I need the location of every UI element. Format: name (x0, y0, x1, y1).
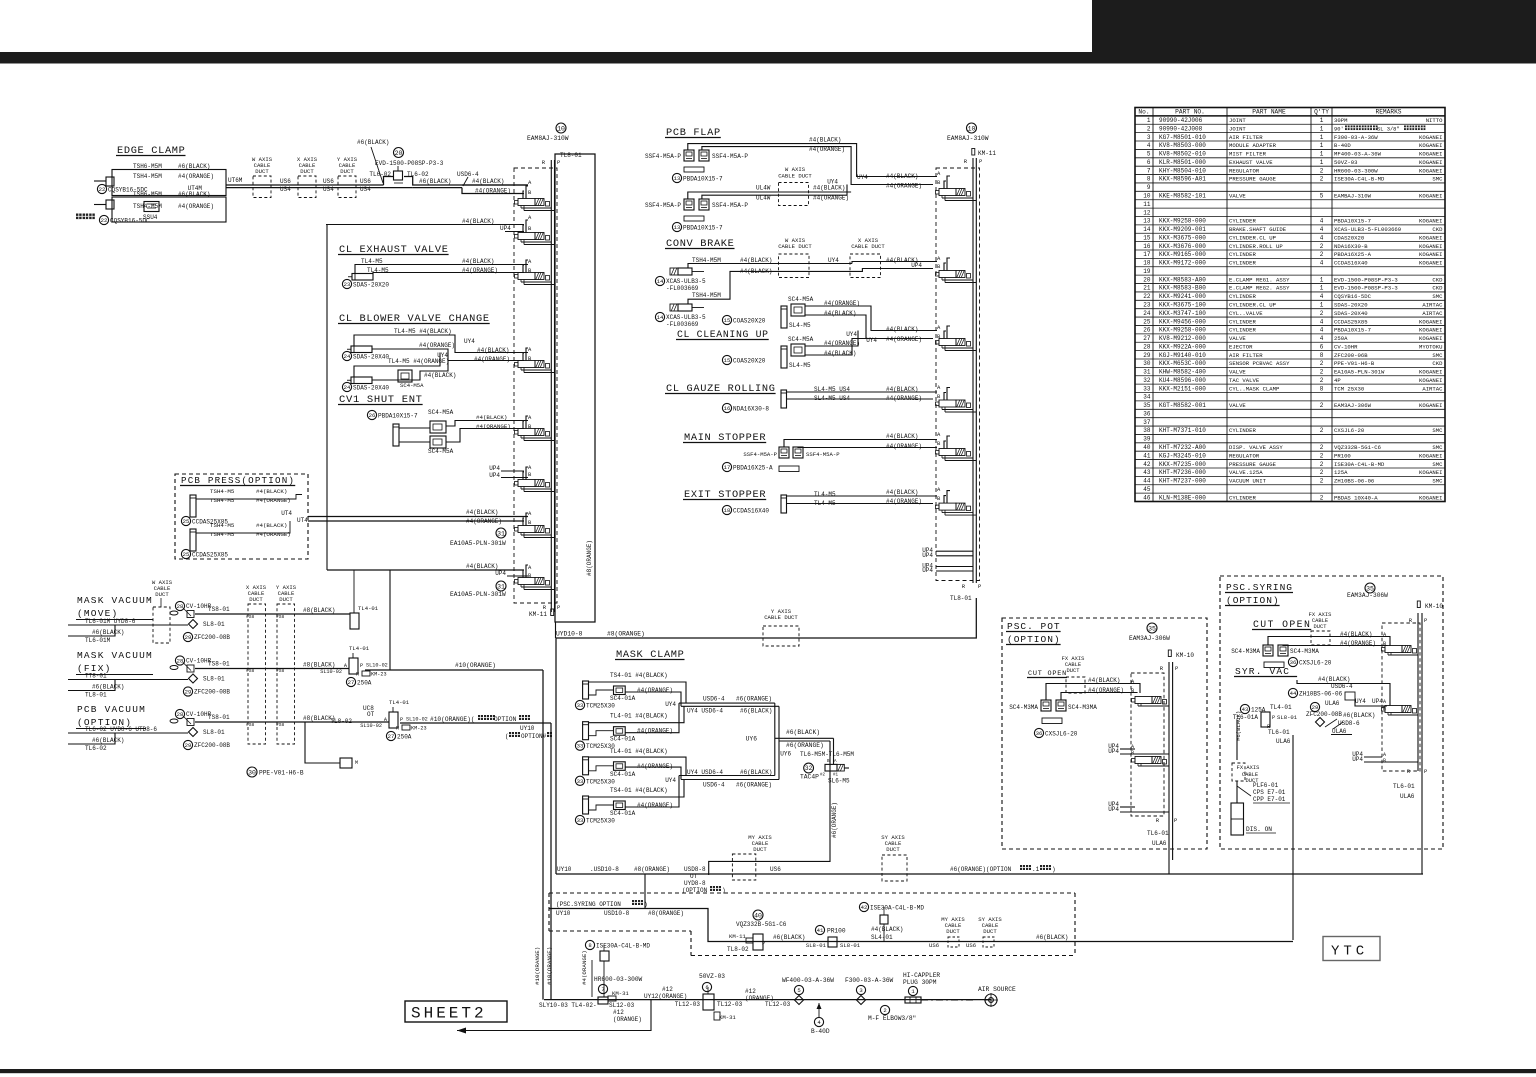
svg-text:UYD8-8: UYD8-8 (684, 880, 706, 887)
svg-text:#6(BLACK): #6(BLACK) (92, 684, 124, 691)
svg-text:SL10-02: SL10-02 (320, 669, 342, 675)
svg-text:ULA6: ULA6 (1400, 793, 1415, 800)
svg-text:TCM25X30: TCM25X30 (586, 818, 615, 825)
svg-text:UY10: UY10 (557, 866, 572, 873)
svg-text:EAM8AJ-310W: EAM8AJ-310W (947, 135, 989, 142)
svg-text:CYLINDER.ROLL UP: CYLINDER.ROLL UP (1229, 243, 1283, 250)
svg-text:SL4-01: SL4-01 (871, 934, 893, 941)
svg-text:SL10-02: SL10-02 (406, 717, 428, 723)
svg-text:ISE30A-C4L-B-MD: ISE30A-C4L-B-MD (870, 905, 924, 912)
svg-text:TL6-01M: TL6-01M (85, 637, 111, 644)
svg-text:TL4-01: TL4-01 (1270, 704, 1292, 711)
svg-text:UY4: UY4 (665, 701, 676, 708)
svg-text:28: 28 (177, 658, 184, 665)
svg-text:ULA6: ULA6 (1152, 840, 1167, 847)
svg-text:SC4-01A: SC4-01A (610, 736, 636, 743)
svg-text:#4(ORANGE): #4(ORANGE) (637, 763, 673, 770)
svg-text:2: 2 (1320, 469, 1324, 476)
svg-text:DUCT: DUCT (946, 928, 960, 935)
svg-text:P: P (360, 663, 363, 669)
svg-text:CABLE DUCT: CABLE DUCT (778, 173, 812, 180)
svg-text:CCDAS25X85: CCDAS25X85 (192, 552, 228, 559)
svg-text:SDAS-20X40: SDAS-20X40 (353, 385, 389, 392)
svg-text:1: 1 (1320, 151, 1324, 158)
svg-text:38: 38 (1143, 427, 1151, 434)
svg-text:TSH4-M5M: TSH4-M5M (133, 173, 162, 180)
svg-text:8: 8 (1320, 352, 1324, 359)
svg-text:KOGANEI: KOGANEI (1419, 234, 1443, 241)
svg-text:1: 1 (1320, 276, 1324, 283)
svg-text:41: 41 (1143, 452, 1151, 459)
svg-text:KKX-M9258-000: KKX-M9258-000 (1159, 327, 1206, 334)
svg-text:CABLE DUCT: CABLE DUCT (764, 614, 798, 621)
svg-text:SMC: SMC (1432, 293, 1443, 300)
svg-text:KM-11: KM-11 (529, 611, 547, 618)
svg-text:SMC: SMC (1432, 461, 1443, 468)
svg-text:DUCT: DUCT (155, 591, 169, 598)
svg-text:PCB VACUUM: PCB VACUUM (77, 704, 146, 715)
svg-text:50VZ-03: 50VZ-03 (1334, 159, 1358, 166)
svg-text:UL4W: UL4W (756, 185, 771, 192)
svg-text:SL4-M5: SL4-M5 (789, 322, 811, 329)
svg-text:HR600-03-300W: HR600-03-300W (594, 976, 643, 983)
svg-text:2: 2 (1320, 176, 1324, 183)
svg-text:#10(ORANGE): #10(ORANGE) (534, 947, 541, 985)
svg-text:5: 5 (797, 987, 800, 994)
svg-text:SL8-01: SL8-01 (806, 942, 827, 949)
svg-text:33: 33 (577, 778, 584, 785)
svg-text:KKX-M922A-000: KKX-M922A-000 (1159, 343, 1206, 350)
svg-text:#4(BLACK): #4(BLACK) (462, 218, 494, 225)
svg-text:21: 21 (1143, 285, 1151, 292)
svg-text:EAM3AJ-306W: EAM3AJ-306W (1334, 402, 1372, 409)
svg-text:4: 4 (1320, 260, 1324, 267)
svg-text:KOGANEI: KOGANEI (1419, 134, 1443, 141)
svg-text:KKX-M2151-000: KKX-M2151-000 (1159, 385, 1206, 392)
svg-text:P: P (979, 158, 982, 165)
svg-text:SSF4-M5A-P: SSF4-M5A-P (712, 153, 748, 160)
svg-text:#4(ORANGE): #4(ORANGE) (178, 173, 214, 180)
svg-text:UP4: UP4 (489, 472, 500, 479)
svg-text:45: 45 (1143, 486, 1151, 493)
svg-text:22: 22 (99, 186, 106, 193)
svg-text:#8(ORANGE): #8(ORANGE) (586, 540, 593, 576)
svg-text:KM-10: KM-10 (1176, 652, 1194, 659)
svg-text:USD6-4: USD6-4 (457, 171, 479, 178)
svg-text:E.CLAMP REG2. ASSY: E.CLAMP REG2. ASSY (1229, 285, 1290, 292)
svg-text:#6(ORANGE): #6(ORANGE) (786, 742, 824, 749)
svg-text:AIR SOURCE: AIR SOURCE (978, 986, 1016, 993)
svg-text:KOGANEI: KOGANEI (1419, 167, 1443, 174)
svg-text:#S8: #S8 (276, 668, 285, 674)
svg-text:EXHAUST VALVE: EXHAUST VALVE (1229, 159, 1273, 166)
svg-text:SL8-01: SL8-01 (203, 729, 225, 736)
svg-text:SL8-01: SL8-01 (203, 676, 225, 683)
svg-text:#4(ORANGE): #4(ORANGE) (809, 146, 845, 153)
svg-text:KOGANEI: KOGANEI (1419, 318, 1443, 325)
svg-text:TL4-01 #4(BLACK): TL4-01 #4(BLACK) (610, 748, 668, 755)
svg-text:DUCT: DUCT (300, 168, 314, 175)
svg-text:CKD: CKD (1432, 276, 1443, 283)
svg-text:F300-03-A-36W: F300-03-A-36W (1334, 134, 1378, 141)
svg-text:REGULATOR: REGULATOR (1229, 167, 1260, 174)
svg-text:33: 33 (577, 817, 584, 824)
svg-text:UY4 USD6-4: UY4 USD6-4 (687, 769, 723, 776)
svg-text:.1: .1 (1032, 866, 1040, 873)
svg-text:VALVE: VALVE (1229, 402, 1246, 409)
svg-text:PR100: PR100 (1334, 452, 1351, 459)
svg-text:TL12-03: TL12-03 (765, 1001, 791, 1008)
svg-text:TCM25X30: TCM25X30 (586, 703, 615, 710)
svg-text:22: 22 (101, 217, 108, 224)
svg-text:KKX-M9241-000: KKX-M9241-000 (1159, 293, 1206, 300)
svg-text:#10(ORANGE): #10(ORANGE) (546, 947, 553, 985)
svg-text:#6(BLACK): #6(BLACK) (1235, 711, 1242, 741)
svg-text:1: 1 (1320, 301, 1324, 308)
svg-text:#S8: #S8 (246, 668, 255, 674)
svg-text:TSH4-M5: TSH4-M5 (210, 522, 235, 529)
svg-text:UY6: UY6 (780, 751, 791, 758)
svg-text:SLY10-03 TL4-02-: SLY10-03 TL4-02- (539, 1002, 597, 1009)
svg-text:#4(ORANGE): #4(ORANGE) (886, 336, 922, 343)
svg-text:MIST FILTER: MIST FILTER (1229, 151, 1267, 158)
svg-text:DUCT: DUCT (249, 596, 263, 603)
svg-text:KKX-M9456-000: KKX-M9456-000 (1159, 318, 1206, 325)
svg-text:#12: #12 (662, 986, 673, 993)
svg-text:E.CLAMP REG1. ASSY: E.CLAMP REG1. ASSY (1229, 276, 1290, 283)
svg-text:42: 42 (861, 904, 868, 911)
svg-text:TS4-01 #4(BLACK): TS4-01 #4(BLACK) (610, 787, 668, 794)
svg-text:1: 1 (1147, 117, 1151, 124)
svg-text:UY6: UY6 (746, 736, 758, 743)
svg-text:13: 13 (674, 175, 681, 182)
svg-text:250A: 250A (1334, 335, 1348, 342)
svg-text:28: 28 (177, 603, 184, 610)
svg-text:35: 35 (1148, 625, 1156, 632)
svg-text:11: 11 (1143, 201, 1151, 208)
svg-text:SENSOR PCBVAC ASSY: SENSOR PCBVAC ASSY (1229, 360, 1290, 367)
svg-text:15: 15 (1143, 234, 1151, 241)
svg-text:1: 1 (1320, 134, 1324, 141)
svg-text:#4(ORANGE): #4(ORANGE) (637, 687, 673, 694)
svg-text:KKX-M3675-100: KKX-M3675-100 (1159, 301, 1206, 308)
svg-text:SC4-01A: SC4-01A (610, 771, 636, 778)
svg-text:US6: US6 (770, 866, 781, 873)
svg-text:KKX-M8583-B00: KKX-M8583-B00 (1159, 285, 1206, 292)
svg-text:UP4: UP4 (495, 570, 506, 577)
svg-text:UY10: UY10 (556, 910, 571, 917)
svg-text:#6(BLACK): #6(BLACK) (357, 139, 389, 146)
svg-text:4: 4 (1320, 327, 1324, 334)
svg-text:B-40D: B-40D (811, 1028, 830, 1035)
svg-text:P: P (1424, 768, 1427, 775)
svg-text:PRESSURE GAUGE: PRESSURE GAUGE (1229, 461, 1277, 468)
svg-text:UT4M: UT4M (188, 185, 203, 192)
svg-text:4: 4 (1320, 293, 1324, 300)
svg-text:UP4: UP4 (1108, 806, 1119, 813)
svg-text:6: 6 (1147, 159, 1151, 166)
svg-text:7: 7 (1147, 167, 1151, 174)
svg-text:SL4-M5: SL4-M5 (789, 362, 811, 369)
svg-text:44: 44 (1143, 478, 1151, 485)
svg-text:B-40D: B-40D (1334, 142, 1351, 149)
svg-text:CABLE DUCT: CABLE DUCT (851, 243, 885, 250)
svg-text:#4(ORANGE): #4(ORANGE) (178, 203, 214, 210)
svg-text:PBDAS 10X40-A: PBDAS 10X40-A (1334, 494, 1378, 501)
svg-text:KHT-M7237-000: KHT-M7237-000 (1159, 478, 1206, 485)
svg-text:CYL..VALVE: CYL..VALVE (1229, 310, 1263, 317)
svg-text:PART NO.: PART NO. (1175, 109, 1205, 116)
svg-text:TL8-01: TL8-01 (950, 595, 972, 602)
svg-text:125A: 125A (1334, 469, 1348, 476)
svg-text:AIR FILTER: AIR FILTER (1229, 134, 1263, 141)
svg-text:CXSJL6-20: CXSJL6-20 (1045, 731, 1078, 738)
svg-text:TL6-01M UYD8-6: TL6-01M UYD8-6 (85, 618, 136, 625)
svg-text:TSH4-M5: TSH4-M5 (210, 531, 235, 538)
svg-text:KV8-M8502-010: KV8-M8502-010 (1159, 151, 1206, 158)
svg-text:#2: #2 (820, 774, 826, 778)
svg-text:SC4-M5A: SC4-M5A (428, 448, 454, 455)
svg-text:#4(ORANGE): #4(ORANGE) (581, 950, 588, 985)
svg-text:#12: #12 (745, 988, 756, 995)
svg-text:F300-03-A-36W: F300-03-A-36W (845, 977, 894, 984)
svg-text:TL4-01: TL4-01 (349, 645, 370, 652)
svg-text:TAC VALVE: TAC VALVE (1229, 377, 1260, 384)
svg-text:CUT OPEN: CUT OPEN (1253, 619, 1311, 630)
svg-text:23: 23 (344, 281, 351, 288)
svg-text:13: 13 (1143, 218, 1151, 225)
svg-text:KOGANEI: KOGANEI (1419, 243, 1443, 250)
svg-text:VALVE: VALVE (1229, 193, 1246, 200)
svg-text:A: A (1383, 699, 1386, 705)
svg-text:UY4: UY4 (464, 338, 475, 345)
svg-text:CYLINDER: CYLINDER (1229, 318, 1256, 325)
svg-text:USD8-8: USD8-8 (684, 866, 706, 873)
svg-text:US6: US6 (966, 942, 976, 949)
svg-text:KOGANEI: KOGANEI (1419, 251, 1443, 258)
svg-text:SC4-01A: SC4-01A (610, 695, 636, 702)
svg-text:1: 1 (1320, 117, 1324, 124)
svg-text:SL12-03: SL12-03 (609, 1002, 635, 1009)
svg-text:SDAS-20X40: SDAS-20X40 (1334, 310, 1368, 317)
svg-text:19: 19 (1143, 268, 1151, 275)
svg-text:2: 2 (1320, 369, 1324, 376)
svg-text:#6(BLACK): #6(BLACK) (773, 934, 805, 941)
svg-text:UYD10-8: UYD10-8 (556, 631, 583, 638)
svg-text:XCAS-ULB3-5: XCAS-ULB3-5 (666, 314, 706, 321)
svg-text:AIRTAC: AIRTAC (1422, 385, 1443, 392)
svg-text:#4(BLACK): #4(BLACK) (1318, 676, 1350, 683)
svg-text:UP4: UP4 (922, 552, 933, 559)
svg-text:SDAS-20X20: SDAS-20X20 (1334, 301, 1368, 308)
svg-text:KKX-M7235-000: KKX-M7235-000 (1159, 461, 1206, 468)
svg-text:10: 10 (968, 125, 976, 132)
svg-text:TSH4-M5: TSH4-M5 (210, 497, 235, 504)
svg-text:2: 2 (1320, 360, 1324, 367)
svg-text:JOINT: JOINT (1229, 125, 1246, 132)
svg-text:PBDA16X25-A: PBDA16X25-A (733, 465, 773, 472)
svg-text:TL6-01: TL6-01 (1147, 830, 1169, 837)
svg-text:50VZ-03: 50VZ-03 (699, 973, 725, 980)
svg-text:EVD-1500-P08SP-P3-3: EVD-1500-P08SP-P3-3 (375, 160, 444, 167)
svg-text:NITTO: NITTO (1426, 117, 1443, 124)
svg-text:KM-23: KM-23 (371, 672, 387, 678)
svg-text:KG7-M8501-010: KG7-M8501-010 (1159, 134, 1206, 141)
svg-text:KLR-M8501-000: KLR-M8501-000 (1159, 159, 1206, 166)
svg-text:34: 34 (1143, 394, 1151, 401)
svg-text:P: P (557, 159, 560, 166)
svg-text:UP4: UP4 (489, 465, 500, 472)
svg-text:CYLINDER: CYLINDER (1229, 327, 1256, 334)
svg-text:4: 4 (1320, 234, 1324, 241)
svg-text:UY4: UY4 (857, 174, 868, 181)
svg-text:33: 33 (577, 702, 584, 709)
svg-text:EJECTOR: EJECTOR (1229, 343, 1253, 350)
svg-text:KKX-M653C-000: KKX-M653C-000 (1159, 360, 1206, 367)
svg-text:3: 3 (1147, 134, 1151, 141)
svg-text:SSF4-M5A-P: SSF4-M5A-P (743, 451, 777, 458)
svg-text:CDAS20X20: CDAS20X20 (1334, 234, 1365, 241)
svg-text:EVD-1500-P08SP-P3-3: EVD-1500-P08SP-P3-3 (1334, 276, 1398, 283)
svg-text:UY4: UY4 (1355, 698, 1366, 705)
svg-text:#4(BLACK): #4(BLACK) (466, 509, 498, 516)
svg-text:4: 4 (1147, 142, 1151, 149)
svg-text:-FL003669: -FL003669 (666, 285, 699, 292)
svg-text:SDAS-20X40: SDAS-20X40 (353, 354, 389, 361)
svg-text:AIRTAC: AIRTAC (1422, 301, 1443, 308)
svg-text:#4(ORANGE): #4(ORANGE) (886, 443, 922, 450)
svg-text:39: 39 (1143, 436, 1151, 443)
svg-text:SL10-02: SL10-02 (366, 663, 388, 669)
svg-text:#8(BLACK): #8(BLACK) (303, 662, 335, 669)
svg-text:CPP E7-01: CPP E7-01 (1253, 796, 1286, 803)
svg-text:.USD10-8: .USD10-8 (590, 866, 619, 873)
svg-text:25: 25 (183, 518, 190, 525)
svg-text:KOGANEI: KOGANEI (1419, 469, 1443, 476)
svg-text:2: 2 (883, 1007, 886, 1014)
svg-text:TCM 25X30: TCM 25X30 (1334, 385, 1365, 392)
svg-text:90': 90' (1334, 126, 1344, 132)
svg-text:17: 17 (724, 464, 731, 471)
svg-text:#4(BLACK): #4(BLACK) (256, 488, 287, 495)
svg-text:CUT OPEN: CUT OPEN (1028, 670, 1067, 678)
svg-text:P: P (557, 604, 560, 611)
svg-text:B: B (1131, 750, 1134, 756)
svg-text:#S8: #S8 (246, 722, 255, 728)
svg-text:UY4: UY4 (665, 777, 676, 784)
svg-text:): ) (644, 901, 648, 908)
svg-text:PSC.SYRING: PSC.SYRING (1226, 582, 1293, 593)
svg-text:B: B (1131, 688, 1134, 694)
svg-text:EAM3AJ-306W: EAM3AJ-306W (1129, 635, 1170, 642)
svg-text:CXSJL6-20: CXSJL6-20 (1299, 660, 1332, 667)
svg-text:PSC. POT: PSC. POT (1007, 621, 1061, 632)
svg-text:SC4-M3MA: SC4-M3MA (1290, 648, 1319, 655)
svg-text:#4(ORANGE): #4(ORANGE) (419, 342, 455, 349)
svg-text:#6(BLACK): #6(BLACK) (740, 708, 772, 715)
svg-text:ZFC200-08B: ZFC200-08B (1306, 711, 1342, 718)
svg-text:ISE30A-C4L-B-MD: ISE30A-C4L-B-MD (1334, 461, 1385, 468)
svg-text:VALVE: VALVE (1229, 369, 1246, 376)
svg-text:SDAS-20X20: SDAS-20X20 (353, 282, 389, 289)
svg-text:UY4: UY4 (846, 331, 857, 338)
svg-text:PLUG 30PM: PLUG 30PM (903, 979, 937, 986)
svg-text:KV8-M8503-000: KV8-M8503-000 (1159, 142, 1206, 149)
svg-text:2: 2 (1320, 494, 1324, 501)
svg-text:UP4: UP4 (1108, 748, 1119, 755)
svg-text:TCM25X30: TCM25X30 (586, 743, 615, 750)
svg-text:12: 12 (1143, 209, 1151, 216)
svg-text:44: 44 (1290, 690, 1297, 697)
svg-text:SC4-M3MA: SC4-M3MA (1231, 648, 1260, 655)
svg-text:USD10-8: USD10-8 (604, 910, 630, 917)
svg-text:KKX-M9165-000: KKX-M9165-000 (1159, 251, 1206, 258)
svg-text:3: 3 (859, 987, 862, 994)
svg-text:90990-42J008: 90990-42J008 (1159, 125, 1203, 132)
svg-text:VACUUM UNIT: VACUUM UNIT (1229, 478, 1267, 485)
svg-text:KHT-M7232-A00: KHT-M7232-A00 (1159, 444, 1206, 451)
svg-text:43: 43 (1242, 706, 1249, 713)
svg-text:#6(BLACK): #6(BLACK) (419, 178, 451, 185)
svg-text:41: 41 (817, 927, 824, 934)
svg-text:TT8-01: TT8-01 (85, 673, 107, 680)
svg-text:2: 2 (1320, 461, 1324, 468)
svg-text:VQZ332B-5G1-C6: VQZ332B-5G1-C6 (1334, 444, 1381, 451)
svg-text:40: 40 (754, 912, 762, 919)
svg-text:KHT-M7371-010: KHT-M7371-010 (1159, 427, 1206, 434)
svg-text:SL10-02: SL10-02 (360, 723, 382, 729)
svg-text:TS4-01 #4(BLACK): TS4-01 #4(BLACK) (610, 672, 668, 679)
svg-text:PBDA10X15-7: PBDA10X15-7 (683, 176, 723, 183)
svg-text:DUCT: DUCT (279, 596, 293, 603)
svg-text:CKD: CKD (1432, 226, 1443, 233)
svg-text:SL8-01: SL8-01 (203, 621, 225, 628)
svg-text:DUCT: DUCT (1067, 668, 1081, 674)
svg-text:DUCT: DUCT (753, 846, 767, 853)
svg-text:29: 29 (1143, 352, 1151, 359)
svg-text:#S8: #S8 (276, 722, 285, 728)
svg-text:ZFC200-08B: ZFC200-08B (194, 689, 230, 696)
svg-text:#10(ORANGE): #10(ORANGE) (455, 662, 496, 669)
svg-text:EAM8AJ-310W: EAM8AJ-310W (527, 135, 569, 142)
svg-text:90990-42J006: 90990-42J006 (1159, 117, 1203, 124)
svg-text:UY4: UY4 (827, 179, 838, 186)
svg-text:SC4-M5A: SC4-M5A (788, 336, 814, 343)
svg-text:TSH4-M5: TSH4-M5 (210, 488, 235, 495)
svg-text:KOGANEI: KOGANEI (1419, 369, 1443, 376)
svg-text:PBDA10X15-7: PBDA10X15-7 (683, 225, 723, 232)
svg-text:#4(BLACK): #4(BLACK) (871, 926, 903, 933)
svg-text:NDA16X30-B: NDA16X30-B (1334, 243, 1368, 250)
svg-text:CPS E7-01: CPS E7-01 (1253, 789, 1286, 796)
svg-text:TCM25X30: TCM25X30 (586, 778, 615, 785)
svg-text:5: 5 (1147, 151, 1151, 158)
svg-text:#4(BLACK): #4(BLACK) (809, 137, 841, 144)
svg-text:KHY-M8504-010: KHY-M8504-010 (1159, 167, 1206, 174)
svg-text:14: 14 (657, 278, 664, 285)
svg-text:TL6-M5M-TL6-M5M: TL6-M5M-TL6-M5M (800, 751, 854, 758)
svg-text:UT4: UT4 (297, 517, 308, 524)
svg-text:30: 30 (248, 769, 256, 776)
svg-text:UT6M: UT6M (228, 177, 243, 184)
svg-text:OPTION: OPTION (494, 716, 517, 723)
svg-text:250A: 250A (357, 680, 372, 687)
svg-text:XCAS-ULB3-5-FL003669: XCAS-ULB3-5-FL003669 (1334, 226, 1401, 233)
svg-text:31: 31 (1143, 369, 1151, 376)
svg-text:#6(BLACK): #6(BLACK) (786, 729, 820, 736)
svg-text:): ) (1052, 866, 1056, 873)
svg-text:37: 37 (1143, 419, 1151, 426)
